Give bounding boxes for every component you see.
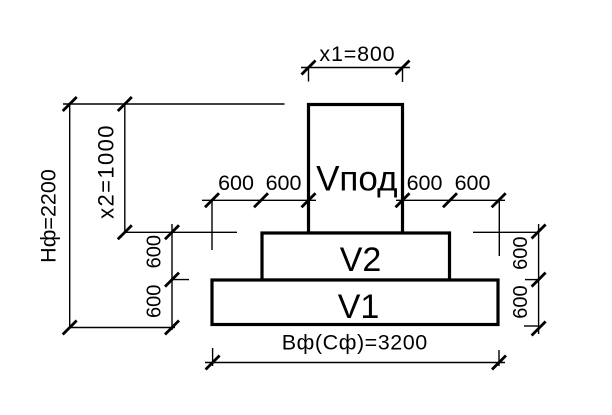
tick right-horiz 2	[443, 193, 457, 207]
svg-text:600: 600	[407, 171, 443, 195]
svg-text:Нф=2200: Нф=2200	[37, 169, 61, 263]
foundation step V2 block	[262, 233, 450, 280]
dimension line right horizontal 600/600	[396, 199, 505, 201]
dimension line right vertical 600/600	[538, 224, 540, 334]
extension right of bottom dim	[498, 350, 500, 366]
svg-text:600: 600	[455, 171, 491, 195]
svg-text:600: 600	[143, 285, 165, 318]
svg-text:x1=800: x1=800	[319, 42, 395, 66]
tick left-vert bottom	[165, 321, 179, 335]
svg-text:Вф(Сф)=3200: Вф(Сф)=3200	[282, 331, 428, 355]
tick right-vert middle	[532, 273, 546, 287]
tick left-vert top	[165, 225, 179, 239]
svg-text:600: 600	[266, 171, 302, 195]
tick x2 top	[118, 97, 132, 111]
tick x2 bottom	[118, 225, 132, 239]
tick Нф bottom	[63, 321, 77, 335]
extension stub at V1 top level left	[172, 279, 189, 281]
svg-text:V1: V1	[338, 288, 380, 326]
extension line below right horizontal dim	[498, 200, 500, 256]
svg-text:600: 600	[510, 237, 532, 270]
svg-text:Vпод: Vпод	[316, 160, 397, 199]
tick left-vert middle	[165, 273, 179, 287]
extension stub at V1 bottom level right	[524, 325, 539, 327]
tick left-horiz 1	[205, 193, 219, 207]
extension stub left of x1	[308, 69, 310, 82]
svg-text:600: 600	[218, 171, 254, 195]
tick left-horiz 2	[254, 193, 268, 207]
foundation base V1 block	[212, 280, 498, 325]
extension line below left horizontal dim	[211, 200, 213, 250]
tick right-vert top	[532, 225, 546, 239]
svg-text:600: 600	[143, 235, 165, 268]
extension stub at V1 top level right	[525, 279, 539, 281]
dimension line left vertical 600/600	[171, 224, 173, 330]
dimension line Вф(Сф)=3200	[205, 362, 505, 364]
extension line at V2 top level left	[125, 231, 237, 233]
dimension line x1=800	[301, 67, 410, 69]
tick x1 right	[396, 61, 410, 75]
tick right-horiz 1	[396, 193, 410, 207]
foundation pedestal column block	[309, 105, 403, 234]
extension stub right of x1	[402, 69, 404, 82]
dimension line Нф=2200	[69, 104, 71, 328]
tick bottom dim right	[492, 356, 506, 370]
top extension line at column top level	[63, 103, 285, 105]
tick bottom dim left	[206, 356, 220, 370]
extension line at V2 top level right	[473, 231, 539, 233]
tick Нф top	[63, 97, 77, 111]
extension line at V1 bottom level left	[70, 327, 175, 329]
dimension line x2=1000	[124, 104, 126, 232]
tick x1 left	[302, 61, 316, 75]
dimension line left horizontal 600/600	[202, 199, 316, 201]
tick right-vert bottom	[532, 322, 546, 336]
extension left of bottom dim	[212, 348, 214, 366]
tick left-horiz 3	[302, 193, 316, 207]
svg-text:600: 600	[510, 285, 532, 318]
svg-text:x2=1000: x2=1000	[94, 124, 119, 219]
svg-text:V2: V2	[340, 241, 382, 279]
tick right-horiz 3	[492, 193, 506, 207]
